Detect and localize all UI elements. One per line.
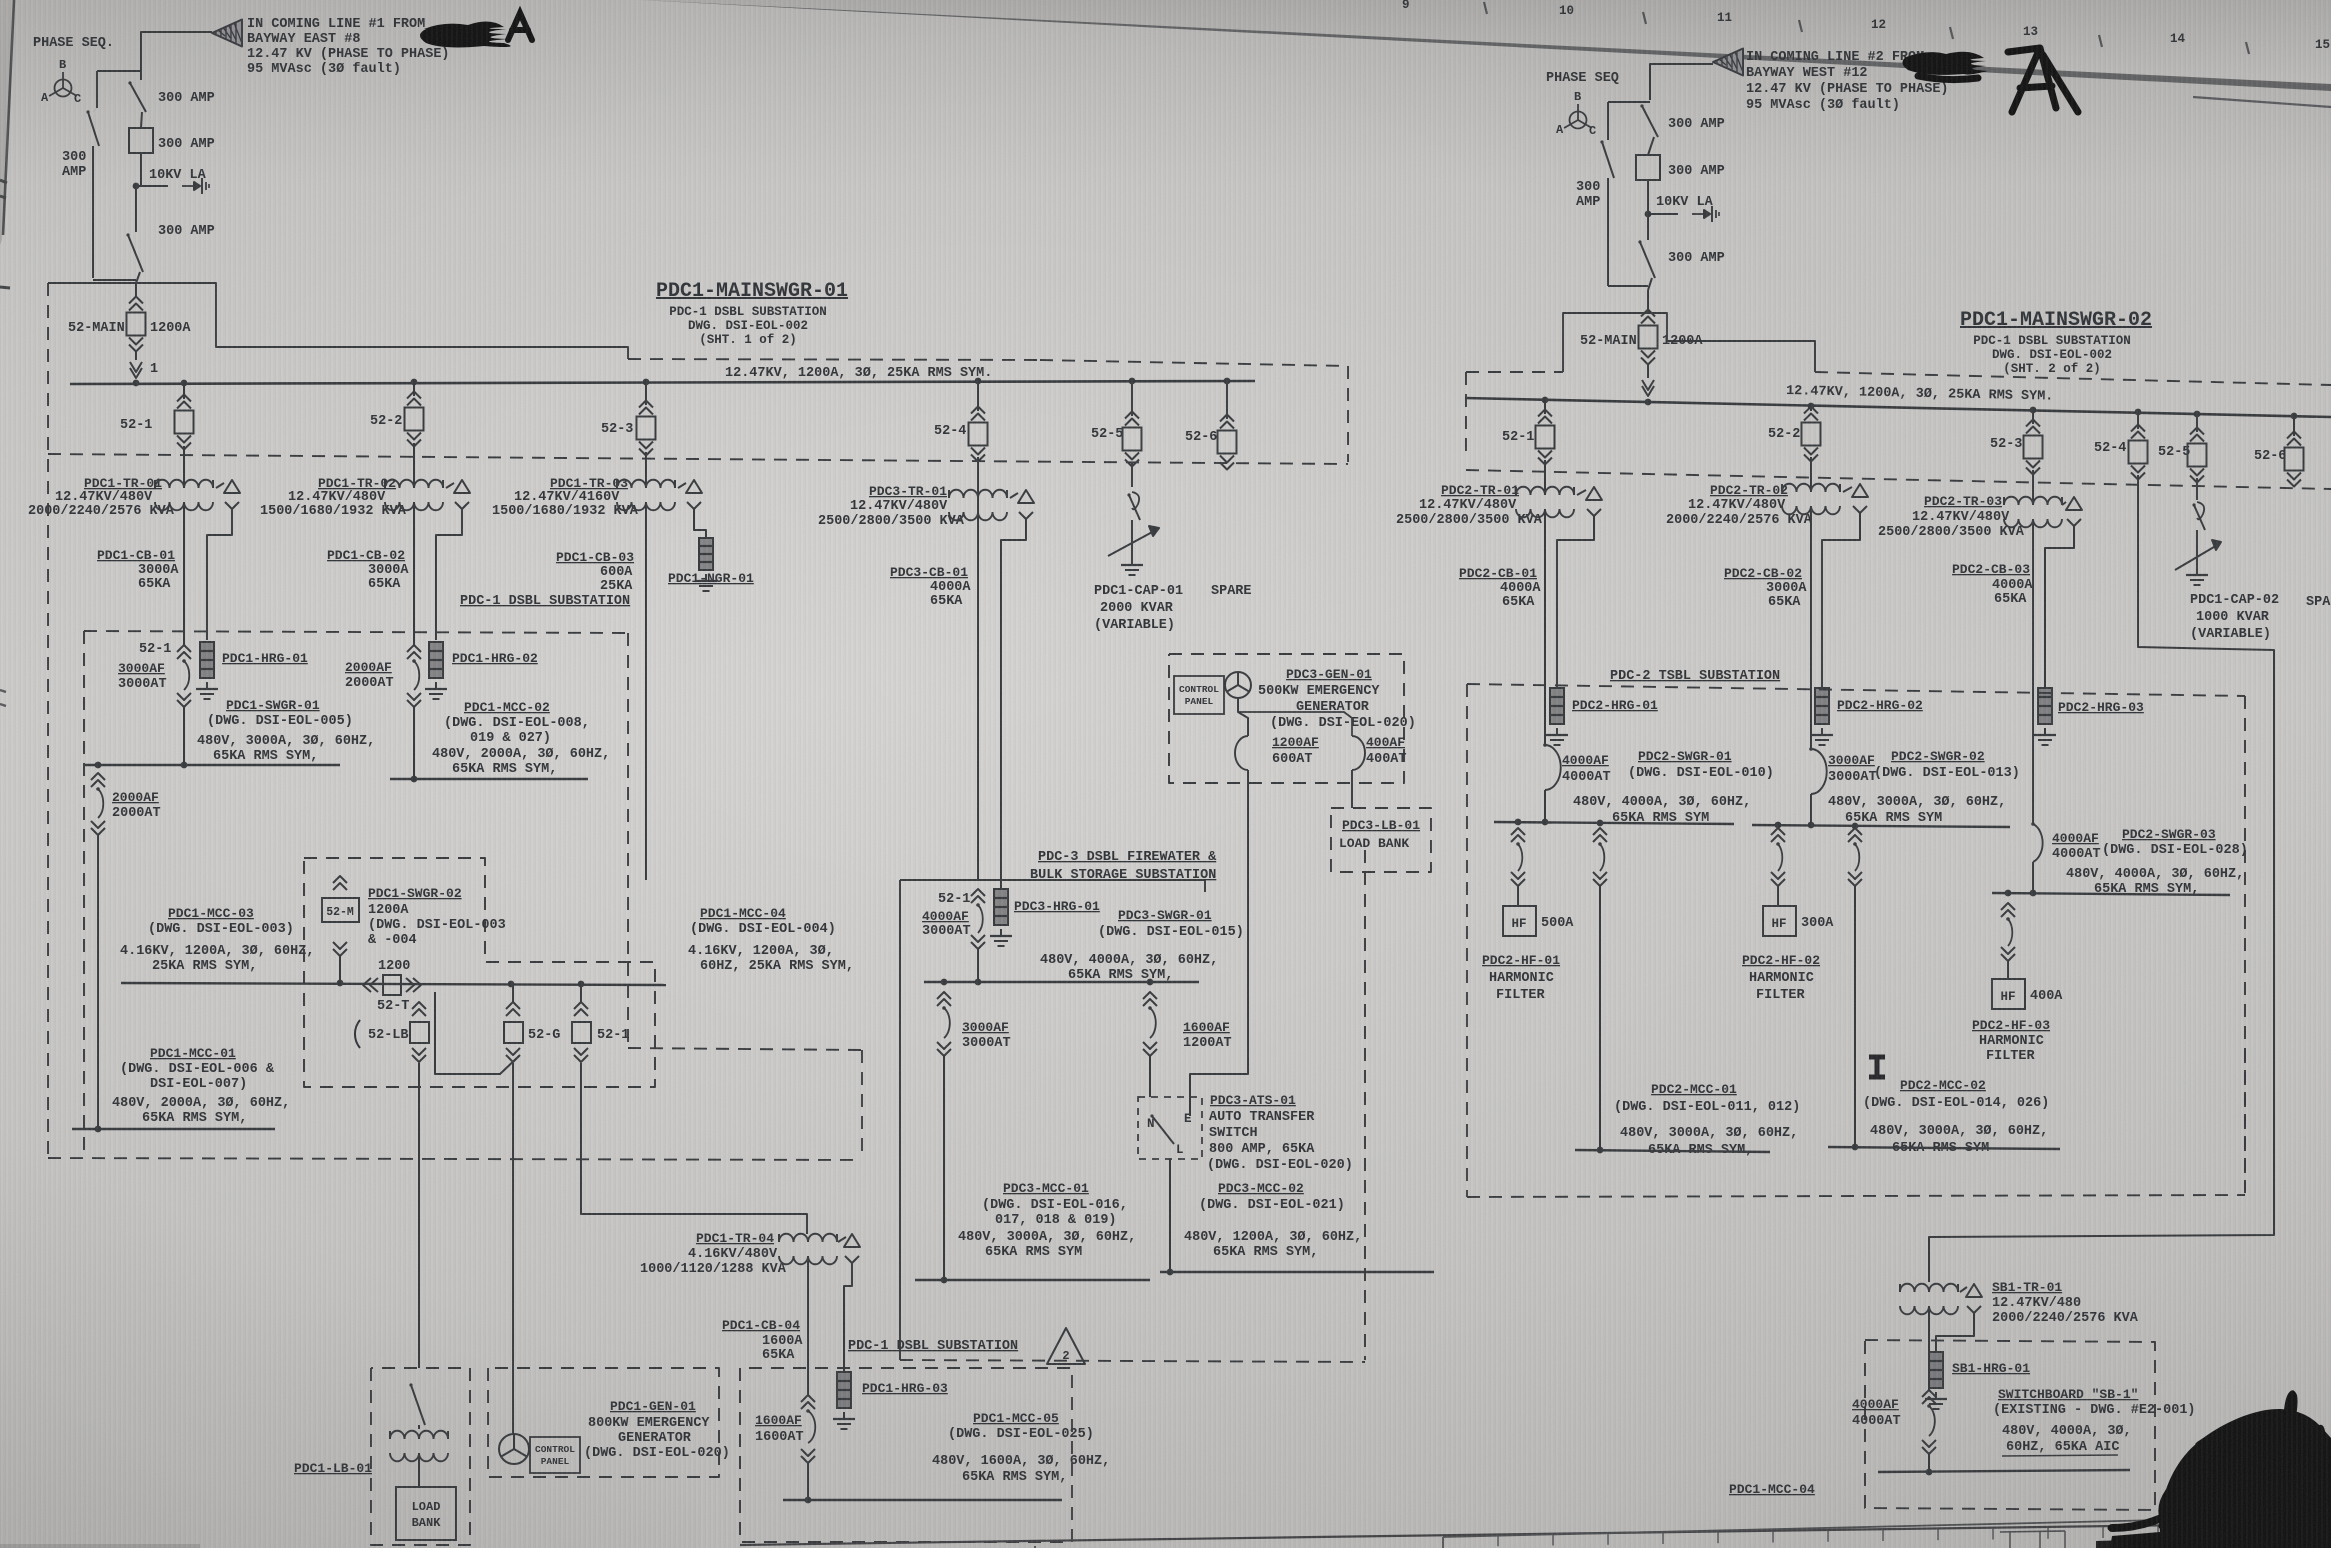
- pdc2 inner dashed corner: [2244, 1050, 2246, 1190]
- generator PDC3-GEN-01 box: [1169, 654, 1404, 783]
- lightning arrester right: [1656, 195, 1719, 222]
- switch in LB-01: [409, 1383, 425, 1429]
- label PDC1-GEN-01: [584, 1399, 730, 1461]
- bus PDC1-MCC-05: [783, 1497, 1062, 1504]
- zone ruler tick mark e: [2099, 35, 2102, 47]
- zone ruler number 15: [2315, 38, 2330, 52]
- bypass branch right: [1600, 140, 1648, 286]
- label PDC-2 substation: [1610, 669, 1780, 684]
- zone ruler number 11: [1717, 11, 1732, 25]
- label mcc05 rating: [932, 1454, 1110, 1485]
- capacitor feeder 52-5R: [2192, 478, 2205, 568]
- breaker 1200AF gen: [1235, 735, 1319, 770]
- substation dashed boundary: [84, 631, 628, 633]
- label PDC2-SWGR-02: [1874, 749, 2020, 781]
- bus PDC2-SWGR-01: [1494, 819, 1734, 827]
- harmonic filter PDC2-HF-02: [1742, 906, 1834, 1003]
- incoming line 2 label: [1746, 50, 1949, 113]
- wire ats feeder: [1149, 1056, 1151, 1097]
- wire 52-3R feeder: [2032, 519, 2034, 824]
- transformer PDC2-TR-03: [1878, 470, 2082, 540]
- warning triangle 2: [1047, 1328, 1085, 1364]
- switchgear 01 step outline: [48, 283, 628, 359]
- title block cells: [1498, 1525, 2268, 1546]
- marker scribble bottom right: [2096, 1390, 2331, 1548]
- wire gen to ATS E: [1190, 770, 1248, 1104]
- bus PDC2-SWGR-03: [1992, 890, 2230, 897]
- label PDC2-CB-03: [1952, 562, 2033, 607]
- switchgear 02R dashed top right: [1815, 372, 2331, 385]
- breaker 52-5R: [2158, 411, 2207, 483]
- breaker 3000AF pdc2b: [1809, 747, 1876, 824]
- label PDC1-MCC-04: [688, 906, 854, 974]
- breaker 52-1 tr04: [572, 984, 629, 1062]
- node junction left chain: [133, 183, 168, 190]
- transformer PDC1-TR-02: [260, 443, 470, 519]
- label PDC1-CAP-01: [1094, 584, 1183, 633]
- wire incoming 1: [97, 32, 212, 108]
- label swgr2-01 rating: [1573, 795, 1751, 826]
- wire 52-4R to SB1: [1929, 475, 2274, 1282]
- resistor PDC1-HRG-02: [425, 642, 538, 699]
- zone ruler number 14: [2170, 32, 2186, 46]
- transformer PDC1-TR-04: [640, 1231, 860, 1277]
- redaction scribble 1: [420, 21, 511, 47]
- title block main line: [740, 1523, 2331, 1545]
- transformer SB1-TR-01: [1900, 1280, 2139, 1326]
- switchgear 01 dashed left edge: [47, 283, 49, 1158]
- wire 52-3 feeder: [645, 502, 647, 880]
- disconnect switch 300A upper-left chain: [128, 81, 146, 128]
- breaker 4000AF sb1: [1852, 1390, 1936, 1454]
- node bus1 main: [133, 380, 140, 387]
- switchgear 02R step outline: [1563, 313, 1815, 372]
- wire TR-02 wye to HRG: [436, 517, 462, 640]
- pdc3 box bottom dashed: [900, 1360, 1365, 1362]
- breaker 52-2: [370, 379, 424, 447]
- switchgear 02 dashed box: [304, 858, 655, 1087]
- pdc3 box left: [899, 880, 901, 1360]
- label PDC1-MCC-03: [120, 906, 314, 974]
- resistor PDC2-HRG-03: [2034, 688, 2144, 745]
- wire 52-2 feeder: [413, 502, 415, 645]
- breaker 52-3R: [1990, 407, 2043, 475]
- breaker 52-1 pdc3: [922, 880, 985, 949]
- feeder MCC2-02: [1848, 828, 1862, 1148]
- handwritten A mark 1: [508, 13, 532, 40]
- breaker 3000AF pdc3: [937, 992, 1011, 1056]
- wire incoming 2: [1608, 64, 1713, 140]
- breaker 400AF gen: [1352, 735, 1407, 770]
- substation dashed right leg: [627, 633, 629, 1048]
- incoming line 1 arrow: [212, 20, 242, 47]
- pdc2 box dashed right: [2244, 696, 2246, 1195]
- bus PDC1-MCC-01: [72, 1126, 275, 1133]
- feeder HF-02: [1771, 828, 1785, 906]
- photo corner shadow: [0, 0, 14, 706]
- load bank box: [396, 1453, 456, 1540]
- wire mcc01 pdc3 feeder: [943, 1056, 945, 1280]
- bus PDC1-MCC-03 4.16KV: [121, 980, 666, 988]
- sb1 dashed box: [1865, 1340, 2155, 1510]
- label PDC3-MCC-01: [958, 1181, 1136, 1260]
- pdc2 box dashed top: [1467, 684, 2245, 696]
- wire 52-1 pdc3 to bus: [977, 949, 979, 982]
- bus PDC1-SWGR-01: [85, 762, 340, 769]
- label mcc02 rating: [432, 747, 610, 777]
- label 300 AMP c: [158, 224, 215, 239]
- feeder arrow to bus 2: [1642, 364, 1654, 396]
- wire 400AF to load bank: [1351, 770, 1353, 808]
- label PDC1-MCC-01: [112, 1046, 290, 1126]
- wire to main breaker 2: [1647, 290, 1649, 313]
- wire 52-1 to bus: [183, 707, 185, 765]
- bus SB1: [1878, 1455, 2130, 1475]
- feeder HF-03: [2001, 903, 2015, 979]
- title block divider b: [1034, 1546, 1036, 1548]
- control panel box 1: [530, 1437, 580, 1473]
- breaker 52-1: [120, 380, 194, 450]
- disconnect switch lower left chain: [126, 186, 143, 283]
- main breaker 52-MAIN right: [1580, 310, 1703, 365]
- bus PDC2-MCC-01: [1575, 1147, 1770, 1154]
- transformer PDC3-TR-01: [818, 484, 1034, 529]
- bus PDC2-SWGR-02: [1752, 822, 2010, 830]
- zone ruler number 13: [2023, 25, 2038, 39]
- label 300 AMP f: [1668, 251, 1725, 266]
- breaker 52-4: [934, 378, 988, 462]
- breaker 52-6: [1185, 378, 1237, 470]
- zone ruler tick mark d: [1950, 27, 1953, 39]
- cursor artifact: [1869, 1057, 1885, 1077]
- bus PDC1-MAINSWGR-02 12.47KV: [1465, 384, 2331, 417]
- label 300 AMP d: [1668, 117, 1725, 132]
- lightning arrester 10KV LA left: [149, 168, 209, 194]
- generator PDC1-GEN-01 box: [488, 1368, 719, 1477]
- breaker 52-4R: [2094, 409, 2148, 480]
- label 300 AMP b: [158, 137, 215, 152]
- label PDC1-CB-02: [327, 548, 409, 592]
- label 300 AMP a: [158, 91, 215, 106]
- load bank PDC3-LB-01: [1331, 808, 1431, 872]
- title block second line: [1443, 1516, 2331, 1537]
- wire TR2-01 wye to HRG: [1557, 524, 1594, 688]
- breaker 52-1 3000AF: [118, 642, 191, 707]
- substation dashed bottom: [48, 1158, 862, 1160]
- control panel box 3: [1174, 676, 1224, 714]
- wire 52-4 feeder drop: [977, 457, 979, 880]
- substation 2 dashed box: [740, 1368, 1072, 1542]
- wire 52-2R feeder: [1810, 506, 1812, 749]
- ground cap-01: [1121, 558, 1143, 575]
- label PDC1-MCC-04 bottom: [1729, 1482, 1815, 1497]
- zone ruler tick mark a: [1484, 2, 1487, 14]
- switchgear 01 dashed right edge: [1347, 366, 1349, 462]
- label PDC1-CAP-02: [2190, 593, 2279, 642]
- pdc3 box top: [900, 880, 1205, 892]
- wire TR3-01 wye down: [1001, 527, 1026, 889]
- wire TR-01 wye to HRG: [207, 517, 232, 640]
- zone ruler number 10: [1559, 4, 1574, 18]
- label swgr2-02 rating: [1828, 795, 2006, 826]
- resistor SB1-HRG-01: [1925, 1352, 2030, 1409]
- resistor PDC2-HRG-02: [1811, 688, 1923, 745]
- label SPARE 1: [1211, 584, 1252, 599]
- zone ruler tick 9: [1402, 0, 1410, 12]
- label PDC-1 DSBL SUBSTATION 2: [848, 1339, 1018, 1354]
- wire MCC-01 feeder: [97, 835, 99, 1129]
- auto transfer switch PDC3-ATS-01: [1138, 1097, 1202, 1159]
- wire 52-1 to TR-04: [581, 1063, 807, 1234]
- transformer PDC2-TR-02: [1666, 457, 1868, 528]
- breaker 52-LB: [355, 984, 429, 1062]
- fuse box 300A right chain: [1636, 155, 1660, 212]
- label PDC1-CB-04: [722, 1318, 803, 1363]
- label PDC-1 DSBL SUBSTATION: [460, 594, 630, 609]
- wire SB1 wye to HRG: [1936, 1321, 1974, 1352]
- bus PDC3-MCC-02: [1160, 1269, 1434, 1276]
- label 300 AMP bypass right: [1576, 180, 1600, 210]
- label PDC2-SWGR-03: [2102, 827, 2248, 858]
- incoming line 1 label: [247, 17, 450, 77]
- wire 52-1R feeder: [1544, 509, 1546, 745]
- breaker 52-3: [601, 379, 656, 456]
- resistor PDC1-HRG-03: [833, 1372, 948, 1429]
- feeder MCC2-01: [1593, 828, 1607, 1148]
- resistor PDC1-HRG-01: [196, 642, 308, 699]
- variable arrow cap-02: [2175, 540, 2221, 570]
- label swgr pdc3 rating: [1040, 953, 1218, 983]
- bus PDC3-SWGR-01: [924, 979, 1199, 986]
- redaction scribble 2: [1902, 52, 1988, 80]
- wire to mcc05 bus: [807, 1463, 809, 1500]
- switchgear 01 dashed bottom: [48, 454, 1348, 464]
- label PDC2-CB-01: [1459, 566, 1541, 610]
- label PDC3-ATS-01: [1207, 1093, 1353, 1173]
- node bus2 main: [1645, 399, 1652, 406]
- label PDC2-CB-02: [1724, 566, 1807, 610]
- main breaker 52-MAIN left: [68, 292, 191, 352]
- label swgr2-03 rating: [2066, 867, 2244, 897]
- breaker 52-1R: [1502, 397, 1555, 465]
- breaker 52-6R: [2254, 413, 2304, 487]
- bus PDC2-MCC-02: [1828, 1144, 2060, 1151]
- incoming line 2 arrow: [1713, 49, 1743, 76]
- label sb1 rating: [2002, 1424, 2132, 1455]
- phase seq symbol left: [33, 36, 114, 106]
- label swgr01 rating: [197, 734, 375, 764]
- wire TR-04 wye to HRG: [844, 1271, 852, 1372]
- zone ruler tick mark b: [1643, 12, 1646, 24]
- pdc3 box right dashed: [1364, 850, 1366, 1360]
- title PDC1-MAINSWGR-01: [656, 280, 848, 347]
- transformer PDC1-TR-01: [28, 446, 240, 519]
- inner sheet border line right: [2193, 97, 2331, 107]
- wire TR2-03 wye to HRG: [2045, 534, 2074, 688]
- disconnect switch lower right chain: [1638, 214, 1655, 290]
- breaker 52-2 2000AF: [345, 645, 421, 707]
- wire 52-LB drop: [418, 1063, 420, 1368]
- tie breaker 52-T: [363, 959, 421, 1014]
- substation dashed jog: [628, 1048, 862, 1158]
- zone ruler number 12: [1871, 18, 1886, 32]
- wire TR-04 secondary: [807, 1256, 809, 1395]
- transformer PDC2-TR-01: [1396, 460, 1602, 528]
- bottom bezel strip: [0, 1544, 200, 1548]
- fuse box 300A left chain: [129, 128, 153, 186]
- switchgear 02R dashed bottom: [1466, 470, 2331, 489]
- breaker 52-5: [1091, 378, 1142, 467]
- bus PDC1-MCC-02: [390, 776, 588, 783]
- switchgear 01 dashed top: [628, 359, 1348, 366]
- switchgear 02R dashed left edge: [1465, 372, 1467, 455]
- label 300 AMP bypass left: [62, 150, 86, 180]
- breaker 52-G: [504, 984, 560, 1062]
- label PDC1-MCC-05: [948, 1411, 1094, 1442]
- disconnect switch upper right chain: [1640, 104, 1658, 155]
- sheet top border zone: [640, 0, 2331, 91]
- node junction right chain: [1645, 211, 1678, 218]
- label 300 AMP e: [1668, 164, 1725, 179]
- label PDC3-MCC-02: [1184, 1181, 1362, 1260]
- label PDC3-CB-01: [890, 565, 971, 609]
- label PDC3-SWGR-01: [1098, 908, 1244, 940]
- substation dashed left leg: [83, 631, 85, 1158]
- handwritten A mark 2: [2008, 48, 2078, 112]
- pdc2 box dashed bottom: [1467, 1195, 2245, 1197]
- wire tie jog: [435, 992, 519, 1074]
- generator symbol G3: [1225, 672, 1251, 698]
- harmonic filter PDC2-HF-03: [1972, 979, 2063, 1064]
- label PDC1-LB-01: [294, 1461, 372, 1476]
- wire SB1 secondary: [1928, 1306, 1930, 1390]
- reactor coils LB-01: [390, 1431, 448, 1462]
- generator symbol G1: [499, 1434, 529, 1464]
- label PDC1-CB-03: [556, 550, 634, 594]
- wire sb1 to bus: [1928, 1454, 1930, 1472]
- pdc2 box dashed left: [1466, 684, 1468, 1197]
- capacitor feeder 52-5: [1127, 462, 1140, 558]
- resistor PDC3-HRG-01: [990, 889, 1100, 946]
- label PDC2-MCC-01: [1614, 1082, 1800, 1158]
- label SPARE 2: [2306, 595, 2331, 610]
- label PDC3-GEN-01: [1258, 667, 1416, 731]
- wire gen outputs: [1238, 698, 1352, 736]
- label PDC2-SWGR-01: [1628, 749, 1774, 781]
- label PDC1-MCC-02: [444, 700, 590, 746]
- wire to main breaker: [135, 283, 137, 292]
- label PDC2-MCC-02: [1863, 1078, 2049, 1156]
- title block divider a: [1442, 1537, 1444, 1548]
- wire 52-1 feeder: [183, 512, 185, 645]
- bus PDC1-MAINSWGR-01 12.47KV: [70, 366, 1255, 384]
- bypass branch left: [86, 108, 136, 280]
- zone ruler tick mark c: [1799, 20, 1802, 32]
- label PDC1-SWGR-01: [207, 698, 353, 729]
- label PDC1-SWGR-02: [368, 886, 506, 948]
- bus PDC3-MCC-01: [915, 1277, 1150, 1284]
- label SWITCHBOARD SB-1: [1993, 1387, 2196, 1418]
- breaker 52-2R: [1768, 403, 1821, 462]
- breaker 52-M: [322, 876, 359, 983]
- breaker 4000AF pdc2a: [1543, 743, 1610, 820]
- breaker 4000AF swgr3: [2031, 822, 2100, 893]
- wire 52-G drop: [512, 1063, 514, 1434]
- feeder arrow to bus 1: [130, 351, 158, 378]
- breaker 1600AF: [755, 1395, 815, 1463]
- resistor PDC2-HRG-01: [1546, 688, 1658, 745]
- breaker 1600AF pdc3: [1143, 992, 1232, 1056]
- feeder HF-01: [1511, 828, 1525, 906]
- label PDC1-CB-01: [97, 548, 179, 592]
- breaker 2000AF feeder: [91, 773, 161, 835]
- wire 52-2 to bus: [413, 707, 415, 779]
- transformer PDC1-TR-03: [492, 452, 702, 519]
- title block small box left: [2000, 1531, 2065, 1548]
- title PDC1-MAINSWGR-02: [1960, 309, 2152, 376]
- load bank PDC1-LB-01 box: [371, 1368, 470, 1545]
- phase seq symbol right: [1546, 71, 1619, 138]
- harmonic filter PDC2-HF-01: [1482, 906, 1574, 1003]
- wire ats load drop: [1169, 1159, 1171, 1272]
- ground cap-02: [2186, 568, 2208, 585]
- label PDC-3 substation: [1030, 850, 1217, 883]
- neutral ground resistor PDC1-NGR-01: [668, 517, 754, 591]
- switchgear 02R dashed top left: [1466, 371, 1563, 373]
- wire TR2-02 wye to HRG: [1822, 521, 1860, 688]
- zone ruler tick mark f: [2246, 42, 2249, 54]
- variable arrow cap-01: [1108, 526, 1159, 556]
